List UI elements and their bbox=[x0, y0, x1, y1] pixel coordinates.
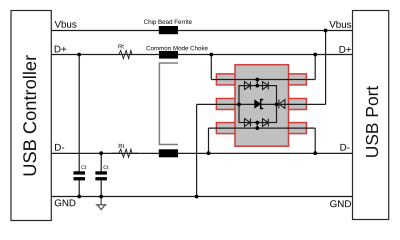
svg-text:Ct: Ct bbox=[103, 165, 109, 171]
svg-text:USB Controller: USB Controller bbox=[19, 55, 40, 177]
svg-text:D-: D- bbox=[54, 143, 64, 154]
svg-text:Chip Bead Ferrite: Chip Bead Ferrite bbox=[144, 19, 193, 26]
svg-text:Vbus: Vbus bbox=[329, 20, 351, 31]
svg-text:D+: D+ bbox=[54, 44, 67, 55]
svg-text:D-: D- bbox=[340, 143, 350, 154]
svg-text:USB Port: USB Port bbox=[362, 86, 382, 159]
svg-text:Common Mode Choke: Common Mode Choke bbox=[146, 45, 208, 52]
svg-text:Rt: Rt bbox=[118, 143, 124, 150]
svg-text:GND: GND bbox=[54, 198, 76, 209]
svg-text:GND: GND bbox=[330, 199, 352, 210]
svg-text:Ct: Ct bbox=[81, 165, 87, 171]
svg-text:Rt: Rt bbox=[118, 43, 124, 50]
svg-text:D+: D+ bbox=[339, 45, 352, 56]
svg-text:Vbus: Vbus bbox=[54, 20, 76, 31]
